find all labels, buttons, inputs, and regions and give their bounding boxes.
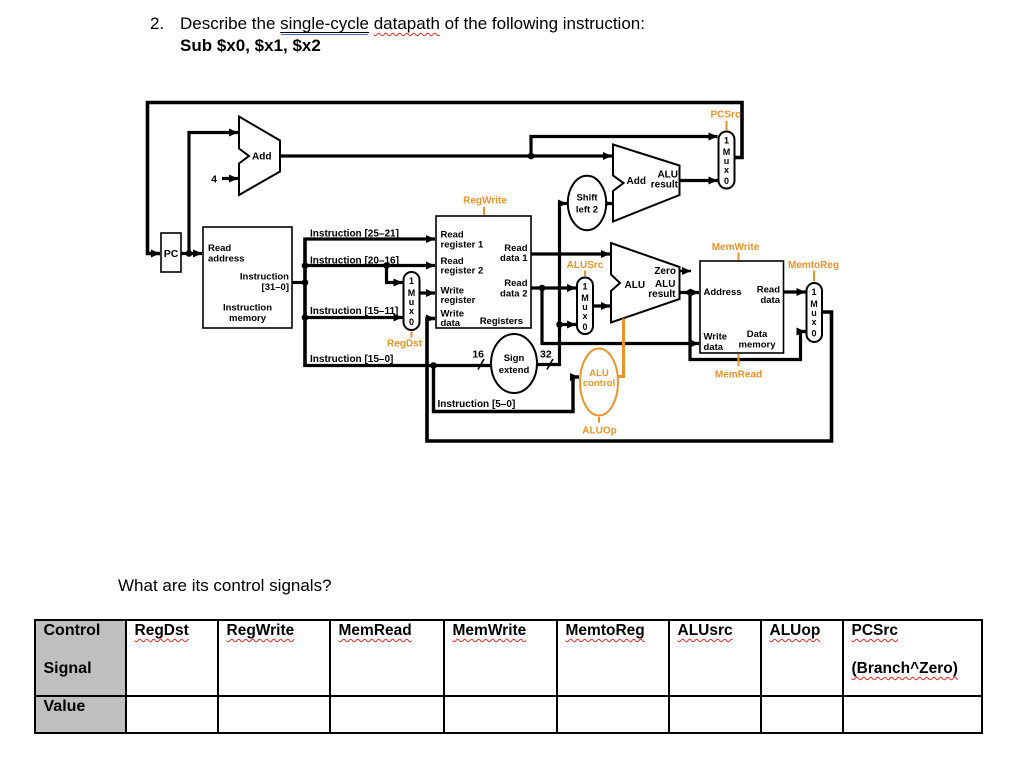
label Instruction [15-0] (310, 354, 393, 365)
ALU (611, 243, 680, 323)
svg-text:RegWrite: RegWrite (463, 196, 507, 207)
svg-text:PCSrc: PCSrc (710, 110, 740, 121)
wire RegDst mux output to Write register (420, 291, 436, 294)
junction nodes (186, 153, 694, 369)
control signal ALUSrc (567, 260, 604, 276)
wire PCSrc mux output to PC input (148, 103, 743, 254)
ALU control (580, 349, 618, 416)
svg-text:0: 0 (582, 322, 587, 332)
instruction memory (203, 227, 292, 328)
label 4 (211, 174, 217, 186)
svg-text:Sign: Sign (504, 353, 525, 364)
node PC+4 branch (528, 153, 535, 160)
svg-text:register 1: register 1 (441, 240, 484, 251)
adder Add (branch target) (613, 145, 680, 222)
node sign extend branch (556, 321, 563, 328)
adder Add (PC+4) (239, 117, 280, 196)
svg-text:x: x (811, 317, 816, 327)
svg-text:result: result (648, 289, 676, 300)
svg-text:address: address (208, 254, 244, 265)
svg-text:Instruction [15–0]: Instruction [15–0] (310, 354, 393, 365)
node bus instruction output (302, 279, 309, 286)
svg-text:memory: memory (739, 340, 777, 351)
node bus Instruction [15-11] (302, 314, 309, 321)
svg-text:Registers: Registers (480, 316, 523, 327)
svg-text:0: 0 (724, 176, 729, 186)
node Instruction [15-0] branch (430, 362, 437, 369)
svg-text:ALUOp: ALUOp (582, 426, 616, 437)
wire Instruction [15-11] to RegDst mux input 0 (305, 316, 403, 319)
wire Instruction [5-0] to ALU control (434, 366, 580, 412)
wire Add (PC+4) output to branch Add (280, 154, 612, 157)
node Read data 2 branch (539, 285, 546, 292)
svg-text:1: 1 (409, 276, 414, 286)
svg-text:memory: memory (229, 313, 267, 324)
svg-text:1: 1 (582, 282, 587, 292)
wire PC+4 branch to PCSrc mux input 1 (531, 137, 718, 157)
control signal RegDst (387, 332, 423, 350)
PC register (161, 233, 181, 272)
wire ALUSrc mux output to ALU (593, 304, 610, 307)
svg-text:left 2: left 2 (576, 205, 598, 216)
label Instruction [5-0] (438, 399, 516, 410)
svg-text:0: 0 (409, 317, 414, 327)
control signal MemRead (715, 354, 762, 381)
registers (436, 216, 531, 329)
svg-text:Data: Data (747, 329, 768, 340)
svg-text:control: control (583, 378, 615, 389)
svg-text:Add: Add (252, 152, 271, 163)
svg-text:MemRead: MemRead (715, 370, 762, 381)
wire sign extend branch to ALUSrc mux input 0 (560, 323, 577, 326)
svg-text:1: 1 (724, 136, 729, 146)
svg-text:Address: Address (704, 287, 742, 298)
svg-text:data 2: data 2 (500, 289, 527, 300)
title line (150, 14, 164, 34)
wire shift left 2 output to branch Add (606, 202, 613, 205)
wire instruction bus vertical (303, 238, 307, 368)
wire Instruction [15-0] to sign extend (305, 364, 491, 367)
svg-text:16: 16 (472, 349, 484, 361)
control signal table (34, 619, 983, 734)
wire ALU result branch to MemtoReg mux input 0 (690, 293, 806, 360)
control signal MemtoReg (788, 260, 839, 282)
label Instruction [20-16] (310, 256, 399, 267)
question text (118, 576, 332, 596)
svg-text:data: data (760, 295, 780, 306)
mux ALUSrc (577, 278, 593, 335)
label Instruction [25-21] (310, 229, 399, 240)
svg-text:PC: PC (164, 248, 179, 260)
svg-text:0: 0 (811, 329, 816, 339)
sign extend (491, 334, 537, 393)
control signal RegWrite (463, 196, 507, 216)
mux MemtoReg (807, 283, 823, 342)
svg-text:Add: Add (627, 176, 646, 187)
wire Read data 2 branch to data memory write data (542, 288, 699, 344)
wire sign extend output riser to shift left 2 (537, 204, 567, 365)
svg-text:register: register (441, 295, 476, 306)
wire data memory read data to MemtoReg mux input 1 (784, 290, 806, 293)
shift left 2 (568, 176, 606, 230)
wire constant 4 into Add (222, 177, 238, 180)
svg-text:data: data (704, 342, 724, 353)
node bus Instruction [20-16] (302, 262, 309, 269)
svg-text:ALU: ALU (625, 280, 646, 291)
node Instruction [20-16] mux branch (383, 262, 390, 269)
label 32 (540, 349, 553, 370)
wire MemtoReg mux output back to registers write data (427, 312, 832, 441)
svg-text:x: x (582, 311, 587, 321)
svg-text:32: 32 (540, 349, 552, 361)
svg-text:data: data (441, 318, 461, 329)
svg-text:Read: Read (208, 243, 231, 254)
svg-text:result: result (651, 180, 679, 191)
label Instruction [15-11] (310, 306, 398, 317)
label 16 (472, 349, 484, 370)
control signal MemWrite (712, 242, 760, 260)
wire Read data 2 to ALUSrc mux input 1 (531, 286, 576, 289)
wire instruction memory output to bus (292, 281, 305, 284)
svg-text:Instruction [5–0]: Instruction [5–0] (438, 399, 516, 410)
svg-text:Zero: Zero (654, 266, 676, 277)
wire ALU result to data memory address (680, 291, 700, 294)
svg-text:Instruction [20–16]: Instruction [20–16] (310, 256, 399, 267)
control signal PCSrc (710, 110, 740, 131)
wire ALU control output to ALU (orange) (618, 319, 624, 377)
svg-text:extend: extend (499, 365, 530, 376)
wire PC output to instruction memory read address (181, 252, 202, 255)
svg-text:register 2: register 2 (441, 266, 484, 277)
svg-text:x: x (724, 165, 729, 175)
svg-text:data 1: data 1 (500, 253, 528, 264)
svg-text:ALUSrc: ALUSrc (567, 260, 604, 271)
wire Instruction [20-16] branch to RegDst mux input 1 (387, 266, 403, 283)
svg-text:Instruction [15–11]: Instruction [15–11] (310, 306, 398, 317)
svg-text:4: 4 (211, 174, 217, 186)
svg-text:Instruction: Instruction (240, 272, 289, 283)
svg-text:MemtoReg: MemtoReg (788, 260, 839, 271)
wire ALU zero output stub (680, 270, 692, 273)
svg-text:Instruction: Instruction (223, 303, 272, 314)
data memory (700, 261, 784, 353)
mux PCSrc (719, 132, 735, 189)
svg-text:Shift: Shift (576, 193, 598, 204)
wire Instruction [20-16] to Read register 2 (305, 264, 435, 267)
wire branch Add output to PCSrc mux input 0 (680, 179, 718, 182)
wire PC output riser to Add (PC+4) (189, 133, 238, 254)
mux RegDst (404, 272, 420, 330)
wire Instruction [25-21] to Read register 1 (305, 237, 435, 240)
node PC output riser (186, 250, 193, 257)
svg-text:1: 1 (811, 287, 816, 297)
svg-text:Read: Read (504, 278, 527, 289)
svg-text:Write: Write (704, 332, 728, 343)
svg-text:x: x (409, 306, 414, 316)
svg-text:MemWrite: MemWrite (712, 242, 760, 253)
svg-text:[31–0]: [31–0] (262, 282, 289, 293)
svg-text:RegDst: RegDst (387, 339, 423, 350)
node ALU result branch (687, 289, 694, 296)
svg-text:Read: Read (757, 285, 780, 296)
svg-text:Instruction [25–21]: Instruction [25–21] (310, 229, 399, 240)
wire Read data 1 to ALU (531, 252, 610, 255)
control signal ALUOp (582, 417, 616, 437)
